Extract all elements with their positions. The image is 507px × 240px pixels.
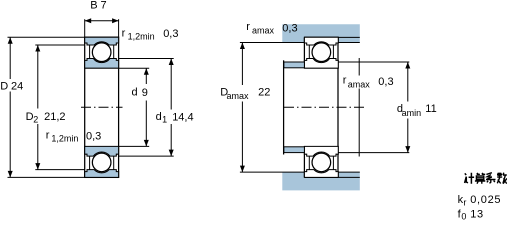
svg-text:d: d: [156, 111, 162, 123]
inner ring bottom (white): [304, 146, 338, 156]
chinese char ji (计): [465, 173, 475, 184]
svg-text:D: D: [0, 81, 8, 93]
bearing body outline left figure: [85, 37, 119, 177]
svg-text:24: 24: [11, 81, 23, 93]
svg-text:0,3: 0,3: [378, 76, 393, 88]
extension line D bottom: [8, 176, 85, 178]
extension line d bottom: [119, 145, 150, 147]
inner ring top (white): [304, 59, 338, 69]
svg-text:r: r: [343, 75, 347, 87]
top half internals right figure: [304, 37, 338, 68]
shaft shoulder strip top (blue): [284, 62, 305, 68]
svg-text:21,2: 21,2: [44, 111, 65, 123]
shaft shoulder surface top / d_a extension top: [338, 61, 409, 63]
svg-text:amax: amax: [348, 79, 371, 89]
svg-text:13: 13: [470, 208, 484, 220]
ball top left figure: [92, 43, 111, 62]
svg-text:0,3: 0,3: [163, 28, 178, 40]
housing shoulder line right bottom: [338, 171, 360, 173]
housing shoulder line right top: [338, 42, 360, 44]
housing bottom (blue band, mirror): [282, 172, 360, 190]
svg-text:7: 7: [101, 0, 107, 12]
extension line D2 top: [35, 44, 84, 46]
bearing body right figure: [304, 37, 338, 177]
extension line d1 bottom: [119, 155, 174, 157]
housing shoulder line top left / D_a extension top: [240, 42, 305, 44]
housing shoulder line bottom left / D_a extension bottom: [240, 171, 305, 173]
dimension line D2: [37, 45, 39, 109]
dimension line d_amin: [407, 62, 409, 102]
svg-text:0,3: 0,3: [86, 130, 101, 142]
svg-text:amax: amax: [252, 26, 275, 36]
svg-text:0,3: 0,3: [282, 22, 297, 34]
svg-text:0: 0: [461, 212, 466, 222]
shoulder face lines: [308, 45, 310, 59]
ball bottom right figure: [312, 153, 331, 172]
inner ring bottom (blue): [85, 146, 119, 156]
outer ring bottom (blue): [85, 170, 119, 178]
shaft right end line: [358, 58, 360, 76]
svg-text:22: 22: [258, 87, 270, 99]
extension line D2 bottom: [35, 169, 84, 171]
svg-text:1,2min: 1,2min: [128, 31, 155, 41]
svg-text:14,4: 14,4: [172, 111, 193, 123]
dimension line B: [85, 20, 119, 22]
bottom half internals right figure (mirror): [304, 146, 338, 177]
housing bore line right bottom: [338, 176, 360, 178]
outer ring top (blue): [85, 37, 119, 45]
dimension line d1: [170, 59, 172, 110]
svg-text:r: r: [122, 27, 126, 39]
dimension line d: [145, 68, 147, 84]
centerline left figure: [81, 106, 123, 108]
svg-text:11: 11: [425, 103, 436, 115]
outer ring bottom (white): [304, 170, 338, 178]
dimension line D_amax: [241, 43, 243, 86]
svg-text:r: r: [246, 21, 250, 33]
shoulder face lines: [308, 156, 310, 170]
shaft shoulder surface bottom / d_a extension bottom: [338, 152, 409, 154]
chinese char suan (算): [475, 173, 485, 184]
outer ring top (white): [304, 37, 338, 45]
housing top (blue band): [282, 24, 360, 42]
chinese char shu (数): [497, 173, 507, 184]
svg-text:1,2min: 1,2min: [51, 134, 78, 144]
svg-text:amax: amax: [227, 91, 250, 101]
svg-text:d: d: [132, 87, 138, 99]
housing bore line right top: [338, 36, 360, 38]
svg-text:0,025: 0,025: [470, 194, 501, 206]
centerline right figure: [284, 106, 365, 108]
extension line d1 top: [119, 58, 174, 60]
shaft left end line: [283, 60, 285, 154]
shaft shoulder strip bottom (blue): [284, 147, 305, 153]
chinese char xi (系): [486, 173, 496, 184]
top half internals left figure: [85, 37, 119, 68]
extension line D top: [8, 36, 85, 38]
svg-text:r: r: [463, 198, 466, 208]
svg-text:r: r: [46, 129, 50, 141]
shoulder face lines: [89, 156, 91, 170]
ball bottom left figure: [92, 153, 111, 172]
inner ring top (blue): [85, 59, 119, 69]
bottom half internals left figure (mirror): [85, 146, 119, 177]
svg-text:amin: amin: [402, 108, 422, 118]
svg-text:1: 1: [162, 115, 167, 125]
ball top right figure: [312, 43, 331, 62]
svg-text:B: B: [90, 0, 97, 12]
svg-text:9: 9: [142, 87, 148, 99]
shoulder face lines: [89, 45, 91, 59]
svg-text:2: 2: [33, 115, 38, 125]
extension line d top: [119, 67, 150, 69]
dimension line D: [9, 37, 11, 79]
